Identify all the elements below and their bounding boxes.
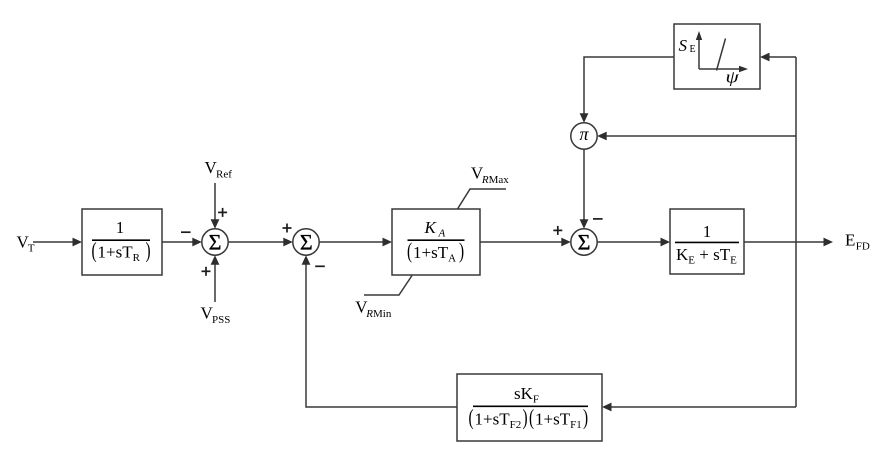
svg-text:ψ: ψ [726,68,740,87]
svg-text:RMin: RMin [365,308,392,320]
svg-text:(: ( [529,406,534,430]
svg-text:K: K [424,218,438,237]
svg-text:E: E [845,231,855,250]
svg-text:Σ: Σ [300,230,313,255]
svg-text:E: E [690,44,696,55]
svg-text:): ) [583,406,588,430]
svg-text:(: ( [92,239,97,263]
svg-text:S: S [679,36,688,55]
svg-text:RMax: RMax [481,174,509,186]
svg-text:(: ( [407,239,412,263]
svg-text:): ) [523,406,528,430]
svg-text:(: ( [469,406,474,430]
svg-text:): ) [146,239,151,263]
svg-text:Σ: Σ [578,230,591,255]
svg-text:1: 1 [703,222,712,241]
svg-text:Σ: Σ [209,230,222,255]
svg-text:PSS: PSS [212,314,230,326]
svg-text:Ref: Ref [216,169,232,181]
svg-text:π: π [579,124,589,144]
svg-text:T: T [28,243,35,255]
svg-text:FD: FD [856,241,870,253]
svg-text:KE + sTE: KE + sTE [676,245,737,267]
svg-text:1: 1 [116,218,125,237]
svg-text:A: A [438,228,446,240]
svg-text:): ) [459,239,464,263]
